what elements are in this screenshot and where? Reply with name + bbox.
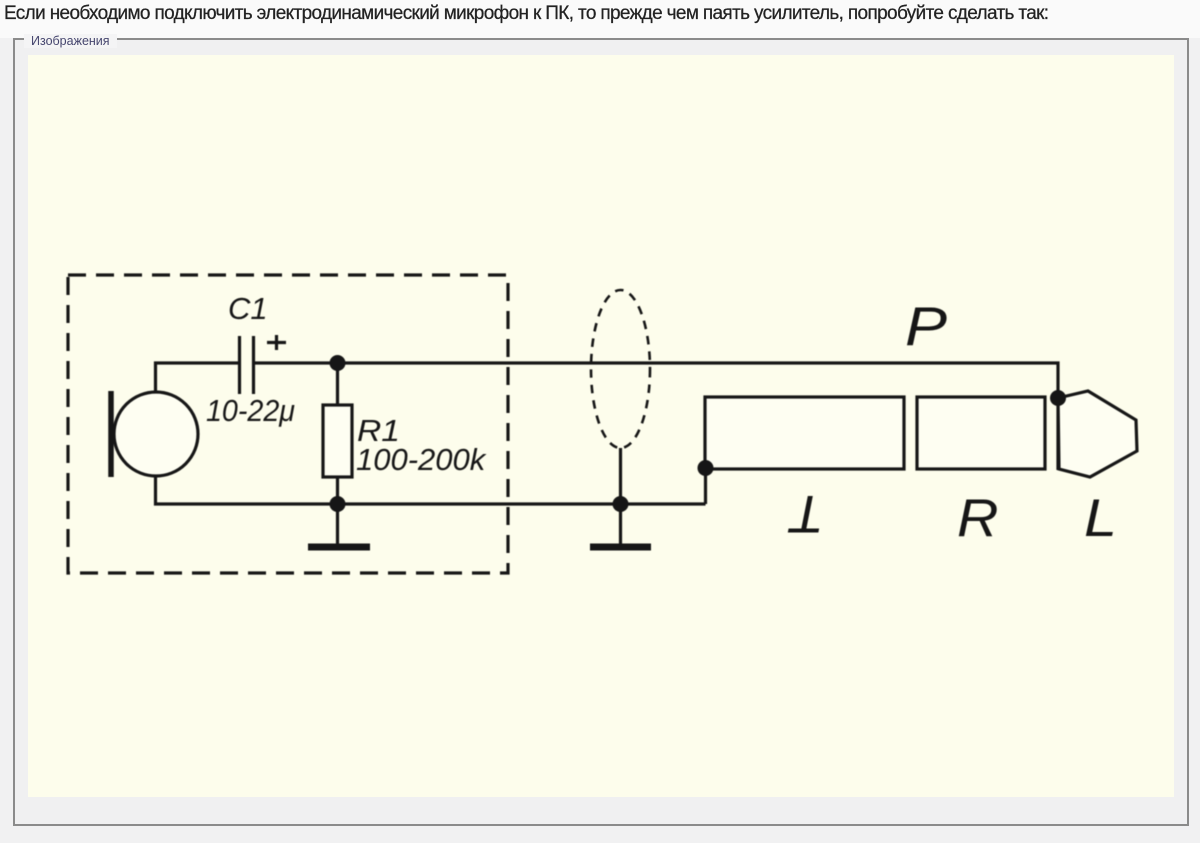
junction node sleeve xyxy=(698,460,714,476)
capacitor C1 plate right xyxy=(252,336,255,394)
svg-text:C1: C1 xyxy=(228,291,268,326)
plus polarity mark xyxy=(267,335,286,350)
wire R1 bottom xyxy=(336,477,339,504)
ground stem 1 xyxy=(336,504,339,544)
microphone diaphragm bar xyxy=(108,391,114,477)
dashed enclosure box xyxy=(68,275,508,573)
ground bar 1 xyxy=(308,544,370,551)
wire mic bottom xyxy=(156,476,706,504)
resistor R1 body xyxy=(323,405,352,477)
junction node top xyxy=(330,355,346,371)
svg-text:L: L xyxy=(1084,489,1117,548)
jack sleeve contact xyxy=(705,397,904,469)
junction node shield xyxy=(613,496,629,512)
capacitor C1 plate left xyxy=(238,336,241,394)
svg-text:T: T xyxy=(787,484,824,543)
microphone M1 xyxy=(114,392,198,476)
shield ellipse xyxy=(591,290,650,448)
ground bar 2 xyxy=(590,544,651,551)
junction node tip xyxy=(1050,390,1066,406)
jack ring contact R xyxy=(917,397,1045,469)
wire mic top xyxy=(156,363,240,392)
svg-text:100-200k: 100-200k xyxy=(356,442,487,477)
shield stem xyxy=(619,448,622,544)
junction node bottom xyxy=(330,496,346,512)
wire to sleeve xyxy=(704,469,707,504)
jack tip contact L xyxy=(1058,391,1137,477)
svg-text:10-22μ: 10-22μ xyxy=(206,393,295,428)
svg-text:P: P xyxy=(905,295,947,357)
wire R1 top xyxy=(336,363,339,405)
wire top net P xyxy=(254,363,1059,470)
svg-text:R: R xyxy=(957,489,999,548)
